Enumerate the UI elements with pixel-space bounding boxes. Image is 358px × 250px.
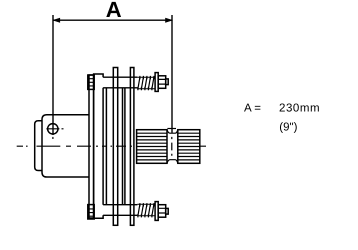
left extension line (to cross-hole center): [52, 15, 54, 135]
drive plate C (tall): [130, 68, 134, 226]
top spring coil: [137, 76, 155, 90]
centerline (horizontal dash-dot shaft axis): [17, 145, 206, 147]
yoke collar (left end cap): [35, 121, 42, 171]
top bolt head (hatched): [88, 75, 94, 89]
bottom bolt tip: [166, 208, 169, 214]
top bolt tip: [166, 79, 169, 85]
right arrowhead: [166, 18, 173, 22]
bottom bolt shank lines: [103, 205, 137, 216]
top hex nut: [158, 76, 166, 89]
pressure plate A: [94, 74, 104, 218]
groove vertical centerline (dash-dot): [171, 137, 173, 156]
dimension line A: [53, 19, 171, 21]
splined shaft left section: [137, 130, 167, 164]
left arrowhead: [53, 18, 60, 22]
bottom spring washer plate: [155, 202, 158, 221]
friction disc D1: [105, 88, 107, 205]
cross-hole horizontal centermark: [46, 128, 63, 130]
svg-text:A: A: [106, 0, 122, 22]
flange plate (leftmost, carries bolt heads): [89, 75, 94, 218]
svg-text:A =: A =: [244, 102, 261, 114]
bottom bolt head (hatched): [88, 205, 94, 219]
svg-text:230mm: 230mm: [279, 102, 320, 114]
svg-text:(9"): (9"): [279, 121, 297, 133]
friction disc D2 (thin): [123, 88, 125, 205]
right extension line (to shaft groove): [171, 15, 173, 133]
cross-hole circle on hub: [48, 124, 58, 134]
cross-hole vertical centermark dot: [52, 137, 54, 139]
shaft groove (dimension reference): [167, 130, 178, 164]
yoke hub barrel: [42, 115, 89, 177]
top bolt shank lines: [103, 77, 137, 88]
bottom spring coil: [137, 203, 155, 217]
bottom hex nut: [158, 205, 166, 218]
groove surface tick: [167, 128, 176, 130]
drive plate B (tall): [113, 68, 117, 226]
splined shaft right section: [178, 130, 200, 164]
top spring washer plate: [155, 73, 158, 92]
